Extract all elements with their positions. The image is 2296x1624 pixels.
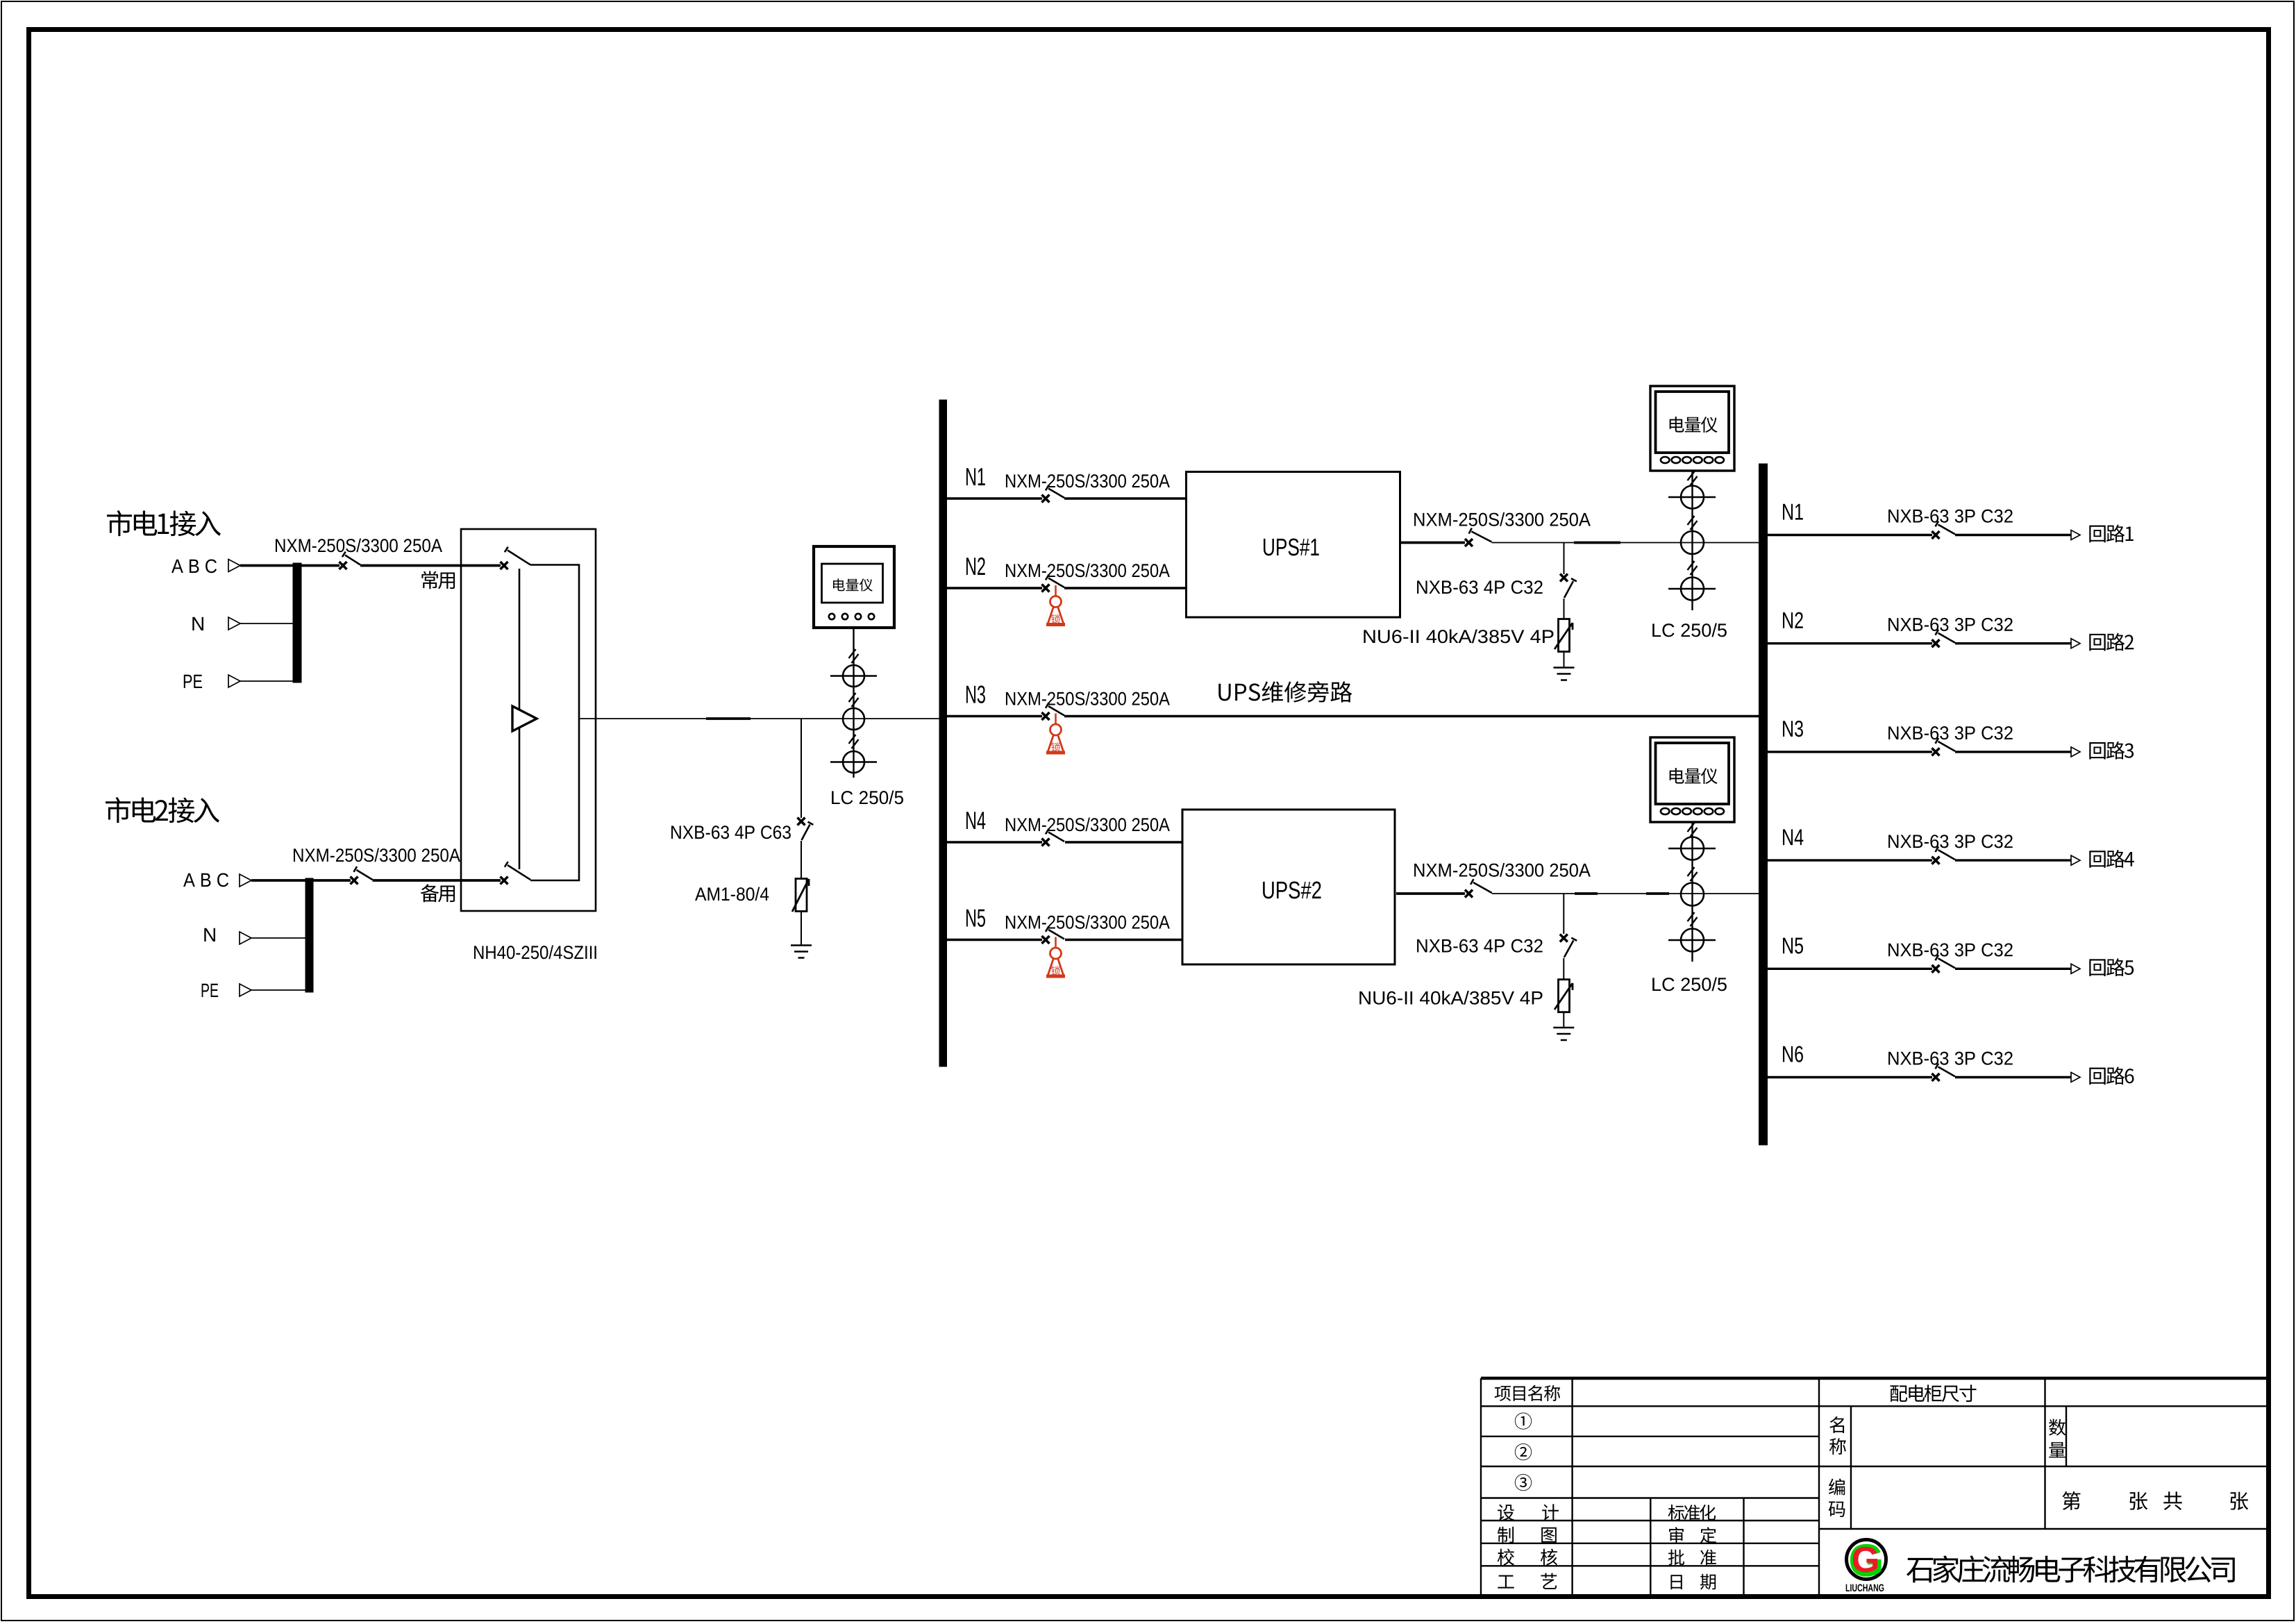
wire: mains2 N to busbar xyxy=(251,937,305,939)
title block grid lines xyxy=(1481,1378,2267,1595)
label: 审定 xyxy=(1669,1527,1684,1543)
CT string break mark 5 xyxy=(1688,516,1698,530)
label: output branch N4 xyxy=(1783,829,1803,845)
label: output branch N5 xyxy=(1783,938,1803,954)
ATS normal-side blade xyxy=(505,547,530,565)
label: circled 2 xyxy=(1515,1443,1532,1460)
terminal arrow: circuit 4 output xyxy=(2071,855,2080,865)
power meter 1 电量仪 case xyxy=(814,546,894,628)
label: 日期 xyxy=(1670,1575,1682,1589)
label: 数量 xyxy=(2049,1419,2065,1436)
label: output breaker N4 NXB-63 3P C32 xyxy=(1888,835,2013,848)
terminal arrow: circuit 1 output xyxy=(2071,530,2080,540)
label: output breaker N1 NXB-63 3P C32 xyxy=(1888,510,2013,523)
terminal arrow: circuit 3 output xyxy=(2071,747,2080,757)
label: breaker NXB-63 4P C32 (UPS#2 side) xyxy=(1417,939,1543,953)
wire: drop to surge protection branch xyxy=(801,719,802,818)
wire: N1 to UPS#1 input xyxy=(1064,497,1187,499)
output breaker N2 blade xyxy=(1936,630,1956,643)
power meter 2 display window xyxy=(1656,392,1729,453)
label: company name 石家庄流畅电子科技有限公司 xyxy=(1907,1555,2235,1582)
CT string break mark 6 xyxy=(1688,561,1698,575)
power meter 3 display window xyxy=(1656,743,1729,804)
wire: output branch N6 from busbar xyxy=(1768,1076,1933,1078)
CT string break mark 3 xyxy=(849,735,859,748)
SPD NU6-II varistor (UPS#2 side) xyxy=(1555,980,1573,1012)
breaker N4 contact X xyxy=(1042,839,1050,846)
ground symbol (UPS#2 side) xyxy=(1553,1028,1574,1040)
CT coil 3 (set A) xyxy=(830,751,877,773)
meter1 buttons xyxy=(829,614,874,619)
label: branch N1 xyxy=(966,468,985,485)
terminal arrow: mains1 N xyxy=(228,617,240,630)
breaker QF1 contact X (mains1) xyxy=(340,562,347,569)
power meter 3 电量仪 case xyxy=(1650,737,1734,822)
breaker N2 contact X xyxy=(1042,585,1050,592)
breaker NXB-63 4P C63 blade xyxy=(802,822,814,840)
wire: branch N4 from main busbar xyxy=(947,841,1043,843)
meter3 buttons xyxy=(1661,808,1724,814)
SPD AM1-80/4 varistor xyxy=(792,879,809,912)
wire: UPS#2 output xyxy=(1396,892,1465,895)
output breaker N1 contact X xyxy=(1932,531,1940,539)
terminal arrow: circuit 5 output xyxy=(2071,964,2080,973)
ATS common pole bar xyxy=(519,569,521,869)
CT coil 2 on UPS#2 output (set C) xyxy=(1681,883,1704,906)
terminal arrow: mains2 ABC input xyxy=(240,874,251,887)
node: main distribution busbar (center) xyxy=(939,400,947,1066)
wire: output branch N3 to circuit xyxy=(1955,751,2071,753)
node: UPS output distribution busbar (right) xyxy=(1759,464,1768,1145)
wire: output branch N2 from busbar xyxy=(1768,642,1933,644)
label: 工艺 xyxy=(1498,1575,1514,1589)
CT coil 1 (LC 250/5 set B) xyxy=(1668,486,1716,509)
CT string break mark 4 xyxy=(1688,471,1698,485)
label: 配电柜尺寸 xyxy=(1891,1384,1977,1402)
node: mains1 terminal busbar xyxy=(293,563,301,683)
CT coil 2 on UPS#1 output (set B) xyxy=(1681,531,1704,554)
label: mains1 PE xyxy=(184,675,202,688)
label: output branch N2 xyxy=(1783,612,1803,628)
output breaker N6 blade xyxy=(1936,1064,1956,1077)
CT string break mark 2 xyxy=(849,693,859,707)
wire: UPS#1 output to busbar xyxy=(1492,542,1759,544)
breaker N3 contact X xyxy=(1042,712,1050,720)
wire: breaker to SPD AM1-80/4 xyxy=(801,841,802,879)
UPS#1 unit box xyxy=(1187,472,1400,618)
power meter 1 display window xyxy=(822,564,883,603)
wire: drop to SPD branch (UPS#2 side) xyxy=(1563,894,1564,934)
wire: output branch N1 from busbar xyxy=(1768,534,1933,536)
wire: ATS output emphasis segment xyxy=(706,717,751,720)
UPS#1 output breaker contact X xyxy=(1465,539,1473,546)
wire: UPS#2 output emphasis segment a xyxy=(1575,892,1598,895)
label: 回路2 xyxy=(2089,633,2134,651)
ATS actuator triangle xyxy=(512,706,537,731)
wire: output branch N2 to circuit xyxy=(1955,642,2071,644)
label: output branch N6 xyxy=(1783,1046,1803,1062)
label: 第 张 共 张 xyxy=(2062,1491,2080,1510)
ATS Q1 NH40-250/4SZIII enclosure box xyxy=(461,529,596,911)
terminal arrow: mains2 N xyxy=(240,932,251,944)
label: SPD NU6-II 40kA/385V 4P (UPS#2 side) xyxy=(1359,991,1542,1005)
breaker N1 blade xyxy=(1046,485,1064,498)
wire: output branch N5 from busbar xyxy=(1768,968,1933,970)
breaker N5 blade xyxy=(1046,926,1064,939)
label: breaker N5 NXM-250S/3300 250A xyxy=(1006,915,1170,929)
breaker QF2 blade (mains2) xyxy=(354,867,373,880)
wire: output branch N1 to circuit xyxy=(1955,534,2071,536)
label: 回路5 xyxy=(2089,958,2134,976)
meter2 buttons xyxy=(1661,457,1724,463)
wire: output branch N3 from busbar xyxy=(1768,751,1933,753)
node: mains2 terminal busbar xyxy=(305,878,313,992)
wire: mains1 ABC feeder to breaker xyxy=(240,564,340,567)
label: 制图 xyxy=(1498,1527,1514,1543)
wire: mains2 breaker to ATS standby input xyxy=(373,879,501,882)
CT string break mark 8 xyxy=(1688,867,1698,881)
terminal arrow: circuit 2 output xyxy=(2071,639,2080,648)
label: 回路6 xyxy=(2089,1066,2134,1085)
breaker N3 blade xyxy=(1046,703,1064,715)
label: meter3 电量仪 xyxy=(1670,768,1718,784)
label: breaker N1 NXM-250S/3300 250A xyxy=(1006,474,1170,487)
label: meter1 电量仪 xyxy=(833,578,873,591)
UPS#2 output breaker blade xyxy=(1470,879,1492,893)
breaker NXB-63 4P C32 contact X (UPS#1 side) xyxy=(1560,574,1568,582)
terminal arrow: circuit 6 output xyxy=(2071,1073,2080,1082)
wire: UPS#1 output xyxy=(1400,542,1465,544)
label: LIUCHANG xyxy=(1846,1584,1884,1592)
ground symbol (UPS#1 side) xyxy=(1554,668,1575,680)
wire: breaker to SPD NU6-II (UPS#2 side) xyxy=(1563,958,1564,980)
label: output branch N1 xyxy=(1783,504,1803,520)
CT string break mark 7 xyxy=(1688,823,1698,837)
label: mains2 neutral N xyxy=(204,928,215,941)
CT coil 3 (set C) xyxy=(1668,929,1716,952)
label: output breaker N5 NXB-63 3P C32 xyxy=(1888,943,2013,956)
CT string break mark 1 xyxy=(849,649,859,663)
ATS standby-side blade xyxy=(505,862,530,880)
wire: mains2 ABC feeder to breaker xyxy=(251,879,351,882)
label: CT ratio LC 250/5 (set C) xyxy=(1652,977,1727,991)
wire: output branch N4 from busbar xyxy=(1768,859,1933,861)
label: branch N5 xyxy=(966,910,985,927)
label: UPS#1 output breaker NXM-250S/3300 250A xyxy=(1414,512,1591,526)
label: UPS#1 xyxy=(1264,539,1319,556)
label: circled 1 xyxy=(1515,1413,1532,1430)
breaker N1 contact X xyxy=(1042,495,1050,503)
padlock tag on breaker N3 xyxy=(1046,714,1065,753)
terminal arrow: mains1 ABC input xyxy=(228,560,240,572)
label: circled 3 xyxy=(1515,1474,1532,1491)
wire: UPS#1 output emphasis segment xyxy=(1574,542,1620,544)
label: branch N4 xyxy=(966,812,985,829)
padlock tag on breaker N2 xyxy=(1046,585,1065,625)
label: mains input 1 title 市电1接入 xyxy=(107,510,221,536)
wire: SPD to ground (UPS#2 side) xyxy=(1563,1012,1564,1028)
label: breaker N2 NXM-250S/3300 250A xyxy=(1006,563,1170,577)
padlock tag on breaker N5 xyxy=(1046,937,1065,977)
output breaker N5 contact X xyxy=(1932,965,1940,973)
output breaker N6 contact X xyxy=(1932,1073,1940,1081)
breaker N5 contact X xyxy=(1042,936,1050,944)
label: UPS#2 xyxy=(1263,882,1321,899)
label: 批准 xyxy=(1668,1550,1684,1566)
breaker QF2 contact X (mains2) xyxy=(351,877,358,885)
wire: breaker to SPD NU6-II (UPS#1 side) xyxy=(1564,598,1565,619)
wire: branch N2 from main busbar xyxy=(947,587,1043,589)
wire: mains2 PE to busbar xyxy=(251,989,305,991)
label: output branch N3 xyxy=(1783,721,1803,737)
output breaker N2 contact X xyxy=(1932,639,1940,647)
label: UPS维修旁路 xyxy=(1218,681,1352,703)
wire: meter3 CT string stem xyxy=(1691,822,1693,962)
label: mains2 phase terminals A B C xyxy=(183,873,228,887)
label: breaker NXB-63 4P C32 (UPS#1 side) xyxy=(1417,580,1543,594)
label: UPS#2 output breaker NXM-250S/3300 250A xyxy=(1414,863,1591,877)
label: 设计 xyxy=(1498,1505,1514,1521)
wire: output branch N6 to circuit xyxy=(1955,1076,2071,1078)
label: output breaker N3 NXB-63 3P C32 xyxy=(1888,726,2013,739)
breaker NXB-63 4P C63 contact X xyxy=(798,818,805,826)
breaker QF1 blade (mains1) xyxy=(342,552,360,565)
output breaker N3 blade xyxy=(1936,738,1956,751)
output breaker N4 blade xyxy=(1936,846,1956,860)
label: branch N3 xyxy=(966,685,985,703)
label: CT ratio LC 250/5 (set B) xyxy=(1652,623,1727,637)
output breaker N3 contact X xyxy=(1932,748,1940,755)
wire: N5 to UPS#2 input xyxy=(1065,939,1182,941)
UPS#1 output breaker blade xyxy=(1469,528,1492,542)
UPS#2 output breaker contact X xyxy=(1465,890,1473,898)
wire: output branch N5 to circuit xyxy=(1955,968,2071,970)
label: 校核 xyxy=(1498,1549,1514,1566)
wire: mains1 PE to busbar xyxy=(240,680,293,682)
wire: ATS output to main busbar xyxy=(579,718,939,719)
label: 备用 (standby) xyxy=(421,884,455,902)
breaker N2 blade xyxy=(1046,575,1064,587)
wire: N2 to UPS#1 input xyxy=(1064,587,1187,589)
breaker NXB-63 4P C32 blade (UPS#1 side) xyxy=(1564,578,1577,598)
ATS switch frame xyxy=(530,565,579,881)
output breaker N5 blade xyxy=(1936,955,1956,968)
label: 名称 xyxy=(1829,1416,1844,1433)
wire: meter2 CT string stem xyxy=(1691,471,1693,610)
wire: mains1 breaker to ATS normal input xyxy=(360,564,501,567)
wire: branch N3 from main busbar xyxy=(947,715,1043,717)
output breaker N1 blade xyxy=(1936,521,1956,535)
label: 项目名称 xyxy=(1495,1385,1560,1401)
label: output breaker N6 NXB-63 3P C32 xyxy=(1888,1052,2013,1065)
label: meter2 电量仪 xyxy=(1670,417,1718,433)
CT coil 1 (LC 250/5 set A) xyxy=(830,665,877,687)
wire: N4 to UPS#2 input xyxy=(1065,841,1182,843)
label: SPD AM1-80/4 xyxy=(695,887,769,901)
power meter 2 电量仪 case xyxy=(1650,386,1734,471)
wire: drop to SPD branch (UPS#1 side) xyxy=(1564,543,1565,575)
CT coil 3 (set B) xyxy=(1668,578,1716,601)
wire: UPS#2 output emphasis segment b xyxy=(1646,892,1669,895)
label: mains input 2 title 市电2接入 xyxy=(106,797,219,823)
output breaker N4 contact X xyxy=(1932,857,1940,864)
wire: SPD to ground (UPS#1 side) xyxy=(1564,652,1565,668)
breaker NXB-63 4P C32 contact X (UPS#2 side) xyxy=(1560,935,1568,942)
label: mains1 phase terminals A B C xyxy=(171,559,217,573)
SPD NU6-II varistor (UPS#1 side) xyxy=(1555,619,1573,652)
label: SPD NU6-II 40kA/385V 4P (UPS#1 side) xyxy=(1364,629,1553,643)
ATS standby-side contact X xyxy=(501,877,508,885)
label: mains2 PE xyxy=(202,984,219,997)
CT coil 1 (LC 250/5 set C) xyxy=(1668,837,1716,860)
ground symbol (C63 branch) xyxy=(791,946,812,958)
wire: SPD to ground xyxy=(801,912,802,946)
label: breaker N4 NXM-250S/3300 250A xyxy=(1006,817,1170,831)
UPS#2 unit box xyxy=(1182,810,1395,964)
label: 编码 xyxy=(1829,1479,1845,1496)
wire: N3 UPS maintenance bypass to output busbar xyxy=(1064,715,1759,717)
label: mains1 neutral N xyxy=(192,617,203,630)
ATS normal-side contact X xyxy=(501,562,508,569)
wire: meter1 CT string stem xyxy=(853,628,854,778)
label: breaker QF1 value NXM-250S/3300 250A xyxy=(276,538,442,552)
terminal arrow: mains1 PE xyxy=(228,675,240,687)
label: 标准化 xyxy=(1668,1505,1716,1521)
wire: output branch N4 to circuit xyxy=(1955,859,2071,861)
label: breaker N3 NXM-250S/3300 250A xyxy=(1006,692,1170,705)
label: ATS model NH40-250/4SZIII xyxy=(474,945,596,959)
label: CT ratio LC 250/5 (set A) xyxy=(832,790,903,804)
wire: branch N1 from main busbar xyxy=(947,497,1043,499)
label: 回路4 xyxy=(2089,850,2134,868)
label: breaker NXB-63 4P C63 xyxy=(671,826,791,839)
label: 回路1 xyxy=(2089,524,2134,542)
breaker N4 blade xyxy=(1046,829,1064,842)
wire: branch N5 from main busbar xyxy=(947,939,1043,941)
label: output breaker N2 NXB-63 3P C32 xyxy=(1888,618,2013,631)
wire: mains1 N to busbar xyxy=(240,623,293,624)
label: breaker QF2 value NXM-250S/3300 250A xyxy=(294,848,460,862)
logo: LIUCHANG emblem xyxy=(1847,1540,1886,1580)
CT coil 2 on main line (set A) xyxy=(843,708,864,730)
terminal arrow: mains2 PE xyxy=(240,984,251,996)
label: 回路3 xyxy=(2089,742,2134,760)
label: branch N2 xyxy=(966,558,985,575)
label: 常用 (normal) xyxy=(421,571,455,589)
CT string break mark 9 xyxy=(1688,912,1698,926)
breaker NXB-63 4P C32 blade (UPS#2 side) xyxy=(1564,938,1577,957)
wire: UPS#2 output to busbar xyxy=(1492,893,1759,894)
